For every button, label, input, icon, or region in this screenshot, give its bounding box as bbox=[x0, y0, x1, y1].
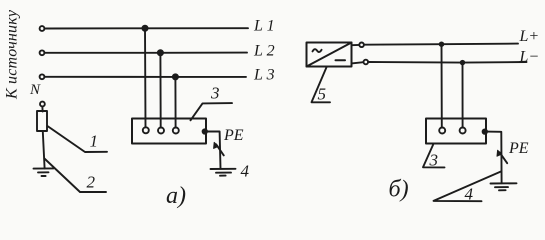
wire L1 bbox=[45, 27, 248, 29]
terminal inside box (L−) bbox=[460, 128, 466, 134]
junction on L− bbox=[461, 61, 465, 65]
leader 3 (diagram b) bbox=[423, 144, 445, 167]
junction PE (diagram b) bbox=[483, 129, 487, 133]
symbol ~ (AC side) bbox=[313, 49, 322, 52]
leader 2 bbox=[44, 159, 106, 193]
terminal L1 bbox=[40, 26, 45, 31]
svg-text:К источнику: К источнику bbox=[4, 9, 21, 100]
svg-text:L 2: L 2 bbox=[253, 43, 275, 60]
svg-text:L 1: L 1 bbox=[253, 18, 275, 35]
terminal L− bbox=[364, 60, 369, 65]
svg-text:1: 1 bbox=[90, 132, 99, 151]
wire L+ bbox=[364, 44, 518, 45]
svg-text:L 3: L 3 bbox=[253, 67, 275, 84]
svg-text:5: 5 bbox=[318, 85, 327, 104]
terminal L+ bbox=[359, 43, 364, 48]
wire resistor to ground bbox=[43, 132, 45, 169]
PE arrow (diagram a) bbox=[216, 144, 224, 155]
svg-text:L+: L+ bbox=[519, 28, 540, 45]
wire drop from L+ bbox=[441, 44, 443, 127]
junction L3 bbox=[173, 74, 178, 79]
equipment box 3 (diagram b) bbox=[426, 119, 486, 144]
ground 4 (diagram a) bbox=[211, 168, 236, 170]
resistor 1 (ground electrode element) bbox=[37, 111, 47, 131]
junction on L+ bbox=[440, 42, 444, 46]
junction L2 bbox=[158, 50, 163, 55]
wire drop from L− bbox=[462, 63, 464, 128]
svg-text:L−: L− bbox=[519, 49, 540, 66]
svg-text:б): б) bbox=[389, 177, 409, 203]
junction PE (diagram a) bbox=[203, 129, 207, 133]
leader 1 bbox=[47, 126, 107, 152]
junction L1 bbox=[142, 26, 147, 31]
converter 5 (AC/DC) bbox=[307, 43, 352, 67]
terminal L2 bbox=[40, 50, 45, 55]
wire drop from L1 bbox=[144, 28, 147, 127]
svg-text:PE: PE bbox=[508, 140, 529, 157]
wire L3 bbox=[45, 76, 246, 78]
terminal inside box (L+) bbox=[439, 128, 445, 134]
wire drop from L3 bbox=[174, 77, 176, 127]
svg-text:N: N bbox=[29, 82, 41, 98]
svg-text:2: 2 bbox=[87, 173, 96, 192]
terminal inside box (phase 1) bbox=[143, 127, 149, 133]
PE arrow (diagram b) bbox=[500, 152, 508, 163]
terminal inside box (phase 3) bbox=[173, 128, 179, 134]
wire L− bbox=[368, 61, 526, 64]
svg-text:3: 3 bbox=[429, 151, 439, 170]
terminal L3 bbox=[40, 74, 45, 79]
equipment box 3 (diagram a) bbox=[132, 119, 206, 144]
terminal inside box (phase 2) bbox=[158, 128, 164, 134]
svg-text:а): а) bbox=[166, 183, 186, 209]
leader 3 (diagram a) bbox=[191, 103, 233, 120]
ground 4 (diagram b) bbox=[491, 182, 517, 184]
PE wire (diagram b) bbox=[486, 132, 502, 184]
svg-text:PE: PE bbox=[223, 127, 244, 144]
svg-text:4: 4 bbox=[465, 185, 474, 204]
wire N terminal to resistor bbox=[41, 107, 43, 112]
ground (N conductor) bbox=[34, 167, 54, 169]
leader 4 (diagram b) bbox=[434, 172, 501, 202]
symbol − (DC side) bbox=[336, 59, 346, 61]
wire drop from L2 bbox=[159, 53, 161, 127]
svg-text:4: 4 bbox=[241, 162, 250, 181]
svg-text:3: 3 bbox=[210, 84, 220, 103]
wire converter to L+ terminal bbox=[352, 44, 360, 46]
leader 5 bbox=[312, 67, 331, 102]
wire L2 bbox=[45, 52, 247, 54]
terminal N bbox=[40, 102, 45, 107]
PE wire (diagram a) bbox=[206, 131, 221, 168]
wire converter to L− terminal bbox=[352, 62, 364, 63]
